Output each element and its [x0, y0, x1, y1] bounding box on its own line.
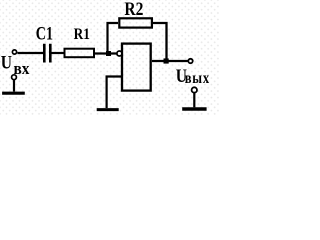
node B (output junction) — [164, 58, 169, 63]
resistor R2 — [119, 18, 152, 27]
inverting input inversion circle — [117, 51, 122, 56]
capacitor C1 — [44, 44, 50, 63]
wire non-inverting input to ground — [107, 77, 122, 109]
svg-text:R1: R1 — [74, 26, 90, 43]
svg-text:вх: вх — [14, 61, 30, 79]
node A (junction of R1, R2, inverting input) — [106, 51, 111, 56]
wire R2 right lead down to output node — [152, 23, 167, 61]
terminal (Uvx lower) — [12, 75, 17, 80]
svg-text:C1: C1 — [36, 23, 53, 44]
wire input to C1 — [17, 52, 44, 54]
ground (middle, non-inverting input) — [97, 108, 119, 111]
wire feedback left (up from node A to R2) — [108, 23, 119, 54]
svg-text:R2: R2 — [124, 0, 143, 20]
wire C1 to R1 — [52, 52, 65, 54]
svg-text:U: U — [1, 52, 12, 73]
resistor R1 — [65, 49, 95, 58]
ground (right, output) — [182, 107, 206, 110]
wire Uvyx lower terminal to ground — [193, 93, 195, 107]
op-amp U1 (GOST rectangle symbol) — [122, 44, 151, 91]
input terminal (Uvx upper) — [12, 50, 16, 54]
ground (left, input) — [2, 92, 25, 95]
wire R1 to op-amp input — [95, 52, 118, 54]
terminal (Uvyx lower) — [192, 87, 197, 92]
wire op-amp output — [152, 60, 188, 62]
output terminal (Uvyx upper) — [188, 59, 192, 63]
svg-text:вых: вых — [185, 70, 210, 88]
wire Uvx lower terminal to ground — [13, 80, 15, 91]
